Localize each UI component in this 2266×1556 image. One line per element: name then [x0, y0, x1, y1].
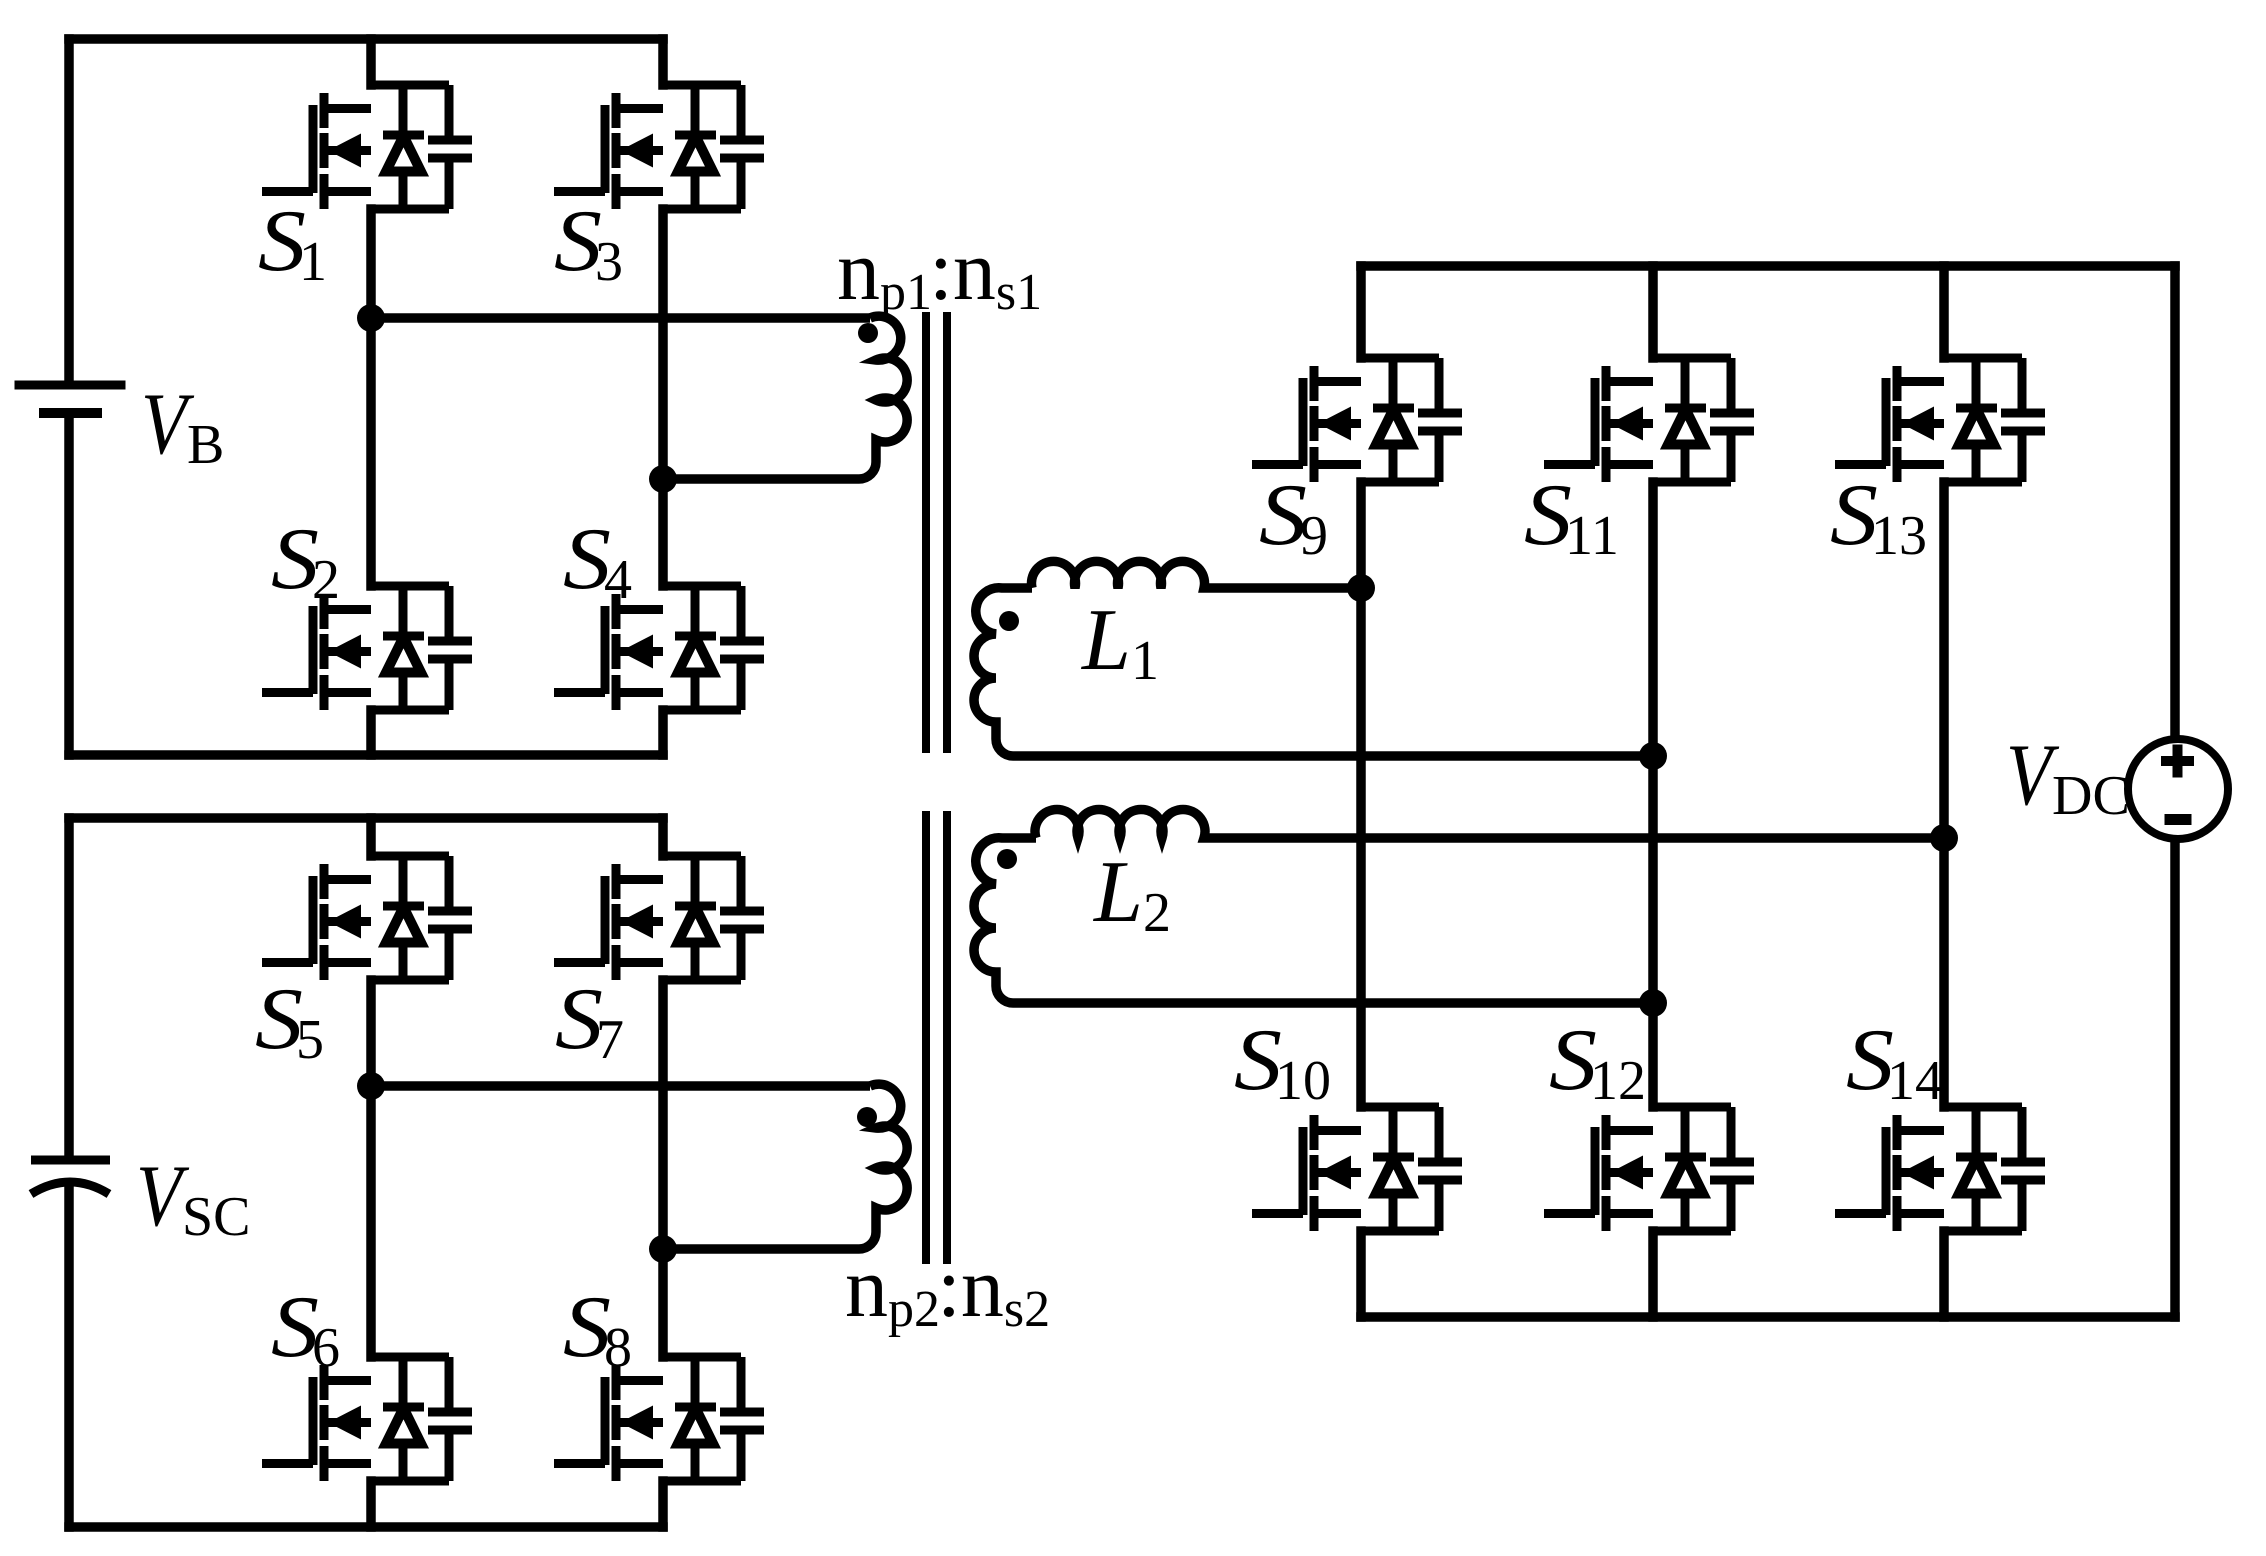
wire leg S11-S12 upper: [1648, 266, 1658, 358]
wire leg S7-S8 lower: [658, 1481, 668, 1527]
node ns2 return at S11-S12 leg: [1639, 989, 1667, 1017]
polarity dot T1 secondary: [999, 611, 1019, 631]
voltage source VDC: [2128, 739, 2228, 839]
transformer T2 secondary winding ns2 (with lead to S11-S12 node): [974, 838, 1653, 1003]
wire leg S9-S10 middle: [1356, 482, 1366, 1107]
wire leg S1-S2 lower: [366, 710, 376, 755]
wire leg S5-S6 lower: [366, 1481, 376, 1527]
node L2 to S13-S14 midpoint: [1930, 824, 1958, 852]
wire left rail lower segment (VB negative lead): [64, 417, 74, 755]
transformer T2 core: [926, 811, 947, 1264]
transistor S3: [554, 85, 764, 209]
wire bottom rail of VB bridge: [69, 750, 663, 760]
wire top rail of VSC bridge: [69, 813, 663, 823]
transistor S2: [262, 586, 472, 710]
wire bottom rail of output bridge: [1361, 1312, 2175, 1322]
polarity dot T2 primary: [857, 1107, 877, 1127]
wire leg S7-S8 middle: [658, 980, 668, 1357]
transistor S13: [1835, 358, 2045, 482]
wire leg S11-S12 lower: [1648, 1231, 1658, 1317]
supercapacitor VSC: [31, 1160, 110, 1194]
transistor S5: [262, 856, 472, 980]
node S1-S2 midpoint: [357, 304, 385, 332]
wire leg S1-S2 upper: [366, 39, 376, 85]
wire leg S5-S6 middle: [366, 980, 376, 1357]
wire leg S11-S12 middle: [1648, 482, 1658, 1107]
transformer T1 core: [926, 312, 947, 753]
node S5-S6 midpoint: [357, 1072, 385, 1100]
wire from T1 primary bottom to S3-S4 midpoint: [663, 474, 859, 484]
transistor S4: [554, 586, 764, 710]
wire right rail lower segment (VDC negative lead): [2170, 838, 2180, 1317]
transistor S14: [1835, 1107, 2045, 1231]
wire top rail of VB bridge: [69, 34, 663, 44]
wire leg S13-S14 upper: [1939, 266, 1949, 358]
battery VB: [19, 385, 121, 413]
node S3-S4 midpoint: [649, 465, 677, 493]
wire from S1-S2 midpoint to T1 primary top: [371, 313, 870, 323]
transistor S11: [1544, 358, 1754, 482]
wire leg S13-S14 lower: [1939, 1231, 1949, 1317]
wire leg S5-S6 upper: [366, 818, 376, 856]
node ns1 return at S11-S12 leg: [1639, 742, 1667, 770]
wire leg S1-S2 middle: [366, 209, 376, 586]
transistor S12: [1544, 1107, 1754, 1231]
node S7-S8 midpoint: [649, 1235, 677, 1263]
wire left rail lower segment (VSC negative lead): [64, 1188, 74, 1527]
transistor S1: [262, 85, 472, 209]
transformer T1 secondary winding ns1 (with lead to S11-S12 node): [974, 588, 1653, 756]
wire top rail of output bridge: [1361, 261, 2175, 271]
transformer T1 primary winding np1: [859, 316, 907, 479]
polarity dot T1 primary: [858, 323, 878, 343]
wire from T2 primary bottom to S7-S8 midpoint: [663, 1244, 859, 1254]
wire leg S13-S14 middle: [1939, 482, 1949, 1107]
wire left rail upper segment (VB positive lead): [64, 39, 74, 381]
transistor S8: [554, 1357, 764, 1481]
polarity dot T2 secondary: [997, 849, 1017, 869]
wire right rail upper segment (VDC positive lead): [2170, 266, 2180, 741]
wire leg S9-S10 upper: [1356, 266, 1366, 358]
transistor S7: [554, 856, 764, 980]
transistor S9: [1252, 358, 1462, 482]
node L1 to S9-S10 midpoint: [1347, 574, 1375, 602]
wire leg S7-S8 upper: [658, 818, 668, 856]
inductor L1: [1032, 561, 1362, 588]
transistor S10: [1252, 1107, 1462, 1231]
wire leg S9-S10 lower: [1356, 1231, 1366, 1317]
transistor S6: [262, 1357, 472, 1481]
wire leg S3-S4 middle: [658, 209, 668, 586]
wire leg S3-S4 upper: [658, 39, 668, 85]
wire from S5-S6 midpoint to T2 primary top: [371, 1081, 870, 1091]
inductor L2: [1035, 809, 1944, 838]
wire left rail upper segment (VSC positive lead): [64, 818, 74, 1156]
transformer T2 primary winding np2: [859, 1084, 907, 1249]
wire leg S3-S4 lower: [658, 710, 668, 755]
wire bottom rail of VSC bridge: [69, 1522, 663, 1532]
